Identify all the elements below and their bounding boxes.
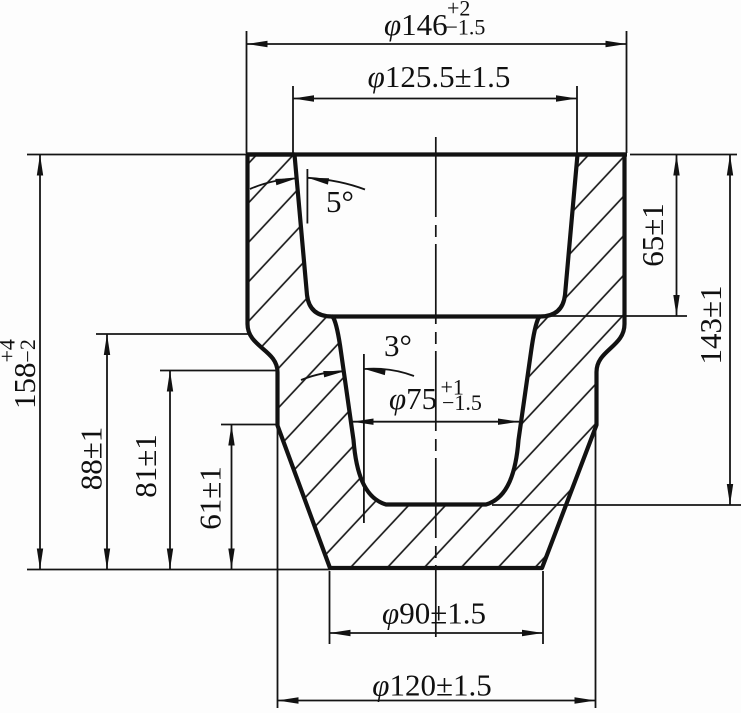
svg-text:5°: 5°	[326, 184, 354, 219]
dimension phi146 extension lines	[246, 31, 248, 153]
shoulder extension line (right)	[545, 315, 687, 317]
3 deg angle arc right	[365, 369, 415, 376]
dimension 158 text	[0, 339, 42, 409]
svg-text:158+4−2: 158+4−2	[0, 339, 42, 409]
dimension phi120 line	[278, 700, 596, 702]
5 deg reference line	[306, 169, 308, 224]
dimension 143 line	[729, 155, 731, 506]
dimension 61 text	[193, 466, 228, 530]
shoulder projection line (bottom of upper cavity)	[332, 314, 540, 318]
section body (hatched cross-section of mold)	[248, 155, 625, 569]
svg-text:61±1: 61±1	[193, 466, 228, 530]
dimension 61 extension line	[221, 424, 277, 426]
dimension 65 line	[676, 155, 678, 317]
top face extension line (right)	[630, 154, 737, 156]
svg-text:φ90±1.5: φ90±1.5	[382, 596, 486, 631]
3 deg reference line	[363, 354, 365, 523]
bottom baseline extension line (left)	[27, 569, 330, 571]
centerline (dash-dot axis)	[435, 137, 437, 637]
dimension phi90 line	[330, 632, 544, 634]
dimension phi90 extension lines	[329, 571, 331, 644]
svg-text:−1.5: −1.5	[446, 15, 486, 40]
svg-text:88±1: 88±1	[74, 427, 109, 491]
5 deg angle arc right	[308, 178, 365, 190]
dimension 81 extension line	[160, 370, 277, 372]
svg-text:143±1: 143±1	[693, 285, 728, 364]
dimension phi146 line	[247, 43, 627, 45]
dimension 81 line	[169, 371, 171, 570]
dimension 61 line	[231, 425, 233, 570]
svg-text:−1.5: −1.5	[442, 390, 482, 415]
dimension 81 text	[128, 434, 163, 498]
5 deg angle arc left	[250, 178, 297, 189]
cavity bottom extension line (right)	[492, 504, 741, 506]
svg-text:3°: 3°	[384, 328, 412, 363]
svg-text:65±1: 65±1	[635, 203, 670, 267]
dimension phi75 line	[353, 421, 520, 423]
dimension phi125.5 extension lines	[292, 86, 294, 153]
top face extension line (left)	[27, 154, 247, 156]
dimension phi125.5 line	[293, 98, 577, 100]
svg-text:φ146: φ146	[384, 7, 448, 42]
top rim projection line (across the opening)	[246, 152, 627, 156]
svg-text:φ75: φ75	[389, 381, 437, 416]
dimension 143 text	[693, 285, 728, 364]
svg-text:φ125.5±1.5: φ125.5±1.5	[368, 59, 511, 94]
dimension 158 line	[39, 155, 41, 570]
dimension phi120 extension lines	[277, 427, 279, 708]
dimension 88 text	[74, 427, 109, 491]
dimension 88 extension line	[96, 333, 248, 335]
svg-text:φ120±1.5: φ120±1.5	[372, 668, 491, 703]
dimension 65 text	[635, 203, 670, 267]
dimension 88 line	[106, 334, 108, 570]
svg-text:81±1: 81±1	[128, 434, 163, 498]
3 deg angle arc left	[301, 371, 345, 380]
